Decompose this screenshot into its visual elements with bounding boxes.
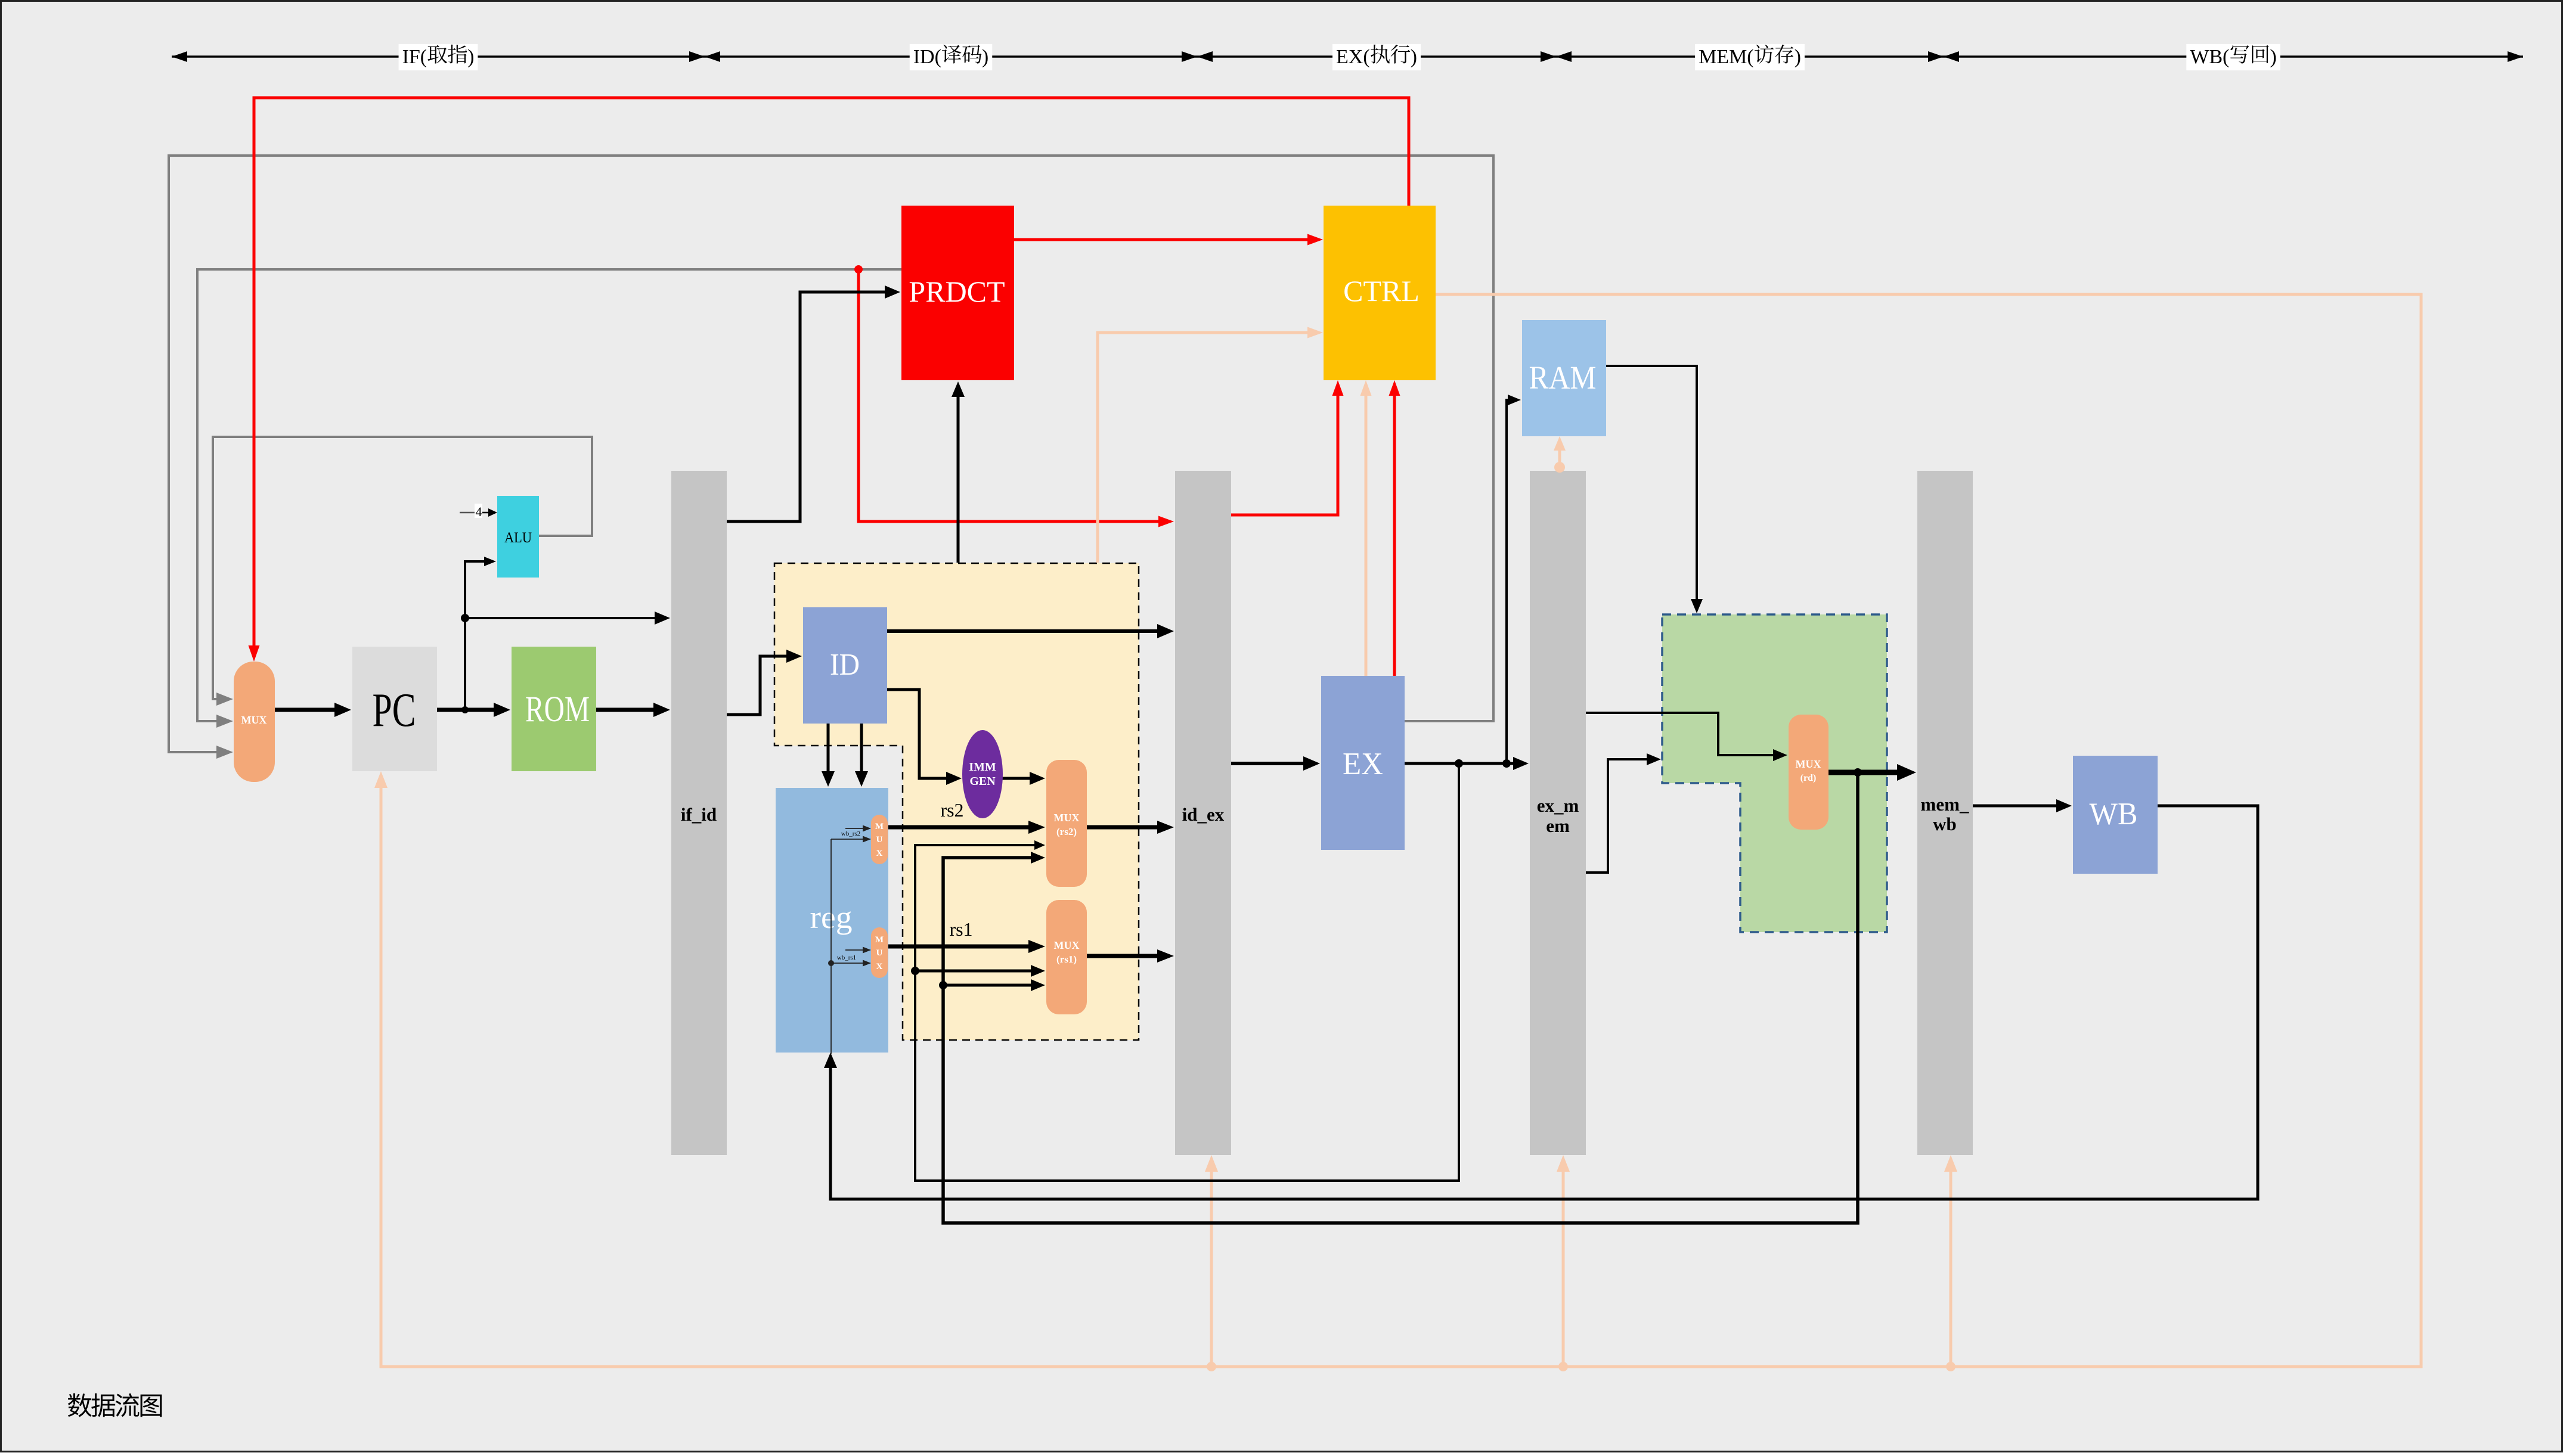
svg-text:EX(: EX( bbox=[1336, 46, 1370, 68]
svg-text:): ) bbox=[1795, 46, 1801, 68]
svg-text:wb_rs2: wb_rs2 bbox=[841, 830, 860, 837]
wire RAM to MEM region bbox=[1606, 366, 1703, 613]
wire PRDCT to CTRL (red) bbox=[1014, 234, 1323, 246]
writeback unit WB bbox=[2073, 756, 2158, 874]
wire ID to reg (rs1 index) bbox=[855, 724, 868, 787]
PC multiplexer MUX bbox=[234, 662, 275, 782]
wire reg rs1 to MUX rs1 bbox=[888, 940, 1045, 953]
pipeline register id_ex bbox=[1175, 471, 1231, 1155]
wire reg rs2 read into small mux bbox=[845, 825, 871, 832]
svg-text:mem_: mem_ bbox=[1921, 794, 1969, 815]
wire ALU+4 to PC-MUX (gray) bbox=[213, 437, 592, 706]
svg-text:U: U bbox=[876, 835, 883, 845]
program counter PC bbox=[352, 647, 437, 771]
svg-text:): ) bbox=[1411, 46, 1417, 68]
decoder ID bbox=[803, 607, 887, 724]
label IMM GEN bbox=[969, 760, 996, 788]
MEM-stage green dashed region bbox=[1662, 614, 1887, 932]
wire CTRL redirect to PC-MUX (red) bbox=[249, 98, 1409, 662]
stage label WB bbox=[2186, 44, 2280, 70]
svg-text:ROM: ROM bbox=[525, 690, 590, 729]
wire EX to PC-MUX (gray loop) bbox=[169, 156, 1493, 759]
label mem_wb bbox=[1921, 794, 1969, 834]
wire PC value into if_id bbox=[461, 611, 670, 625]
label ex_mem bbox=[1537, 795, 1579, 836]
wire MUX rd to mem_wb bbox=[1828, 764, 1916, 781]
branch predictor PRDCT bbox=[901, 206, 1014, 380]
stage label ID bbox=[910, 44, 993, 70]
wire ID to IMM GEN bbox=[887, 690, 962, 785]
wire EX forwarding to MUX rs2 bbox=[915, 763, 1459, 1181]
wire prediction into id_ex (red) bbox=[854, 265, 1174, 527]
wire id_ex to EX bbox=[1231, 756, 1320, 771]
svg-text:ex_m: ex_m bbox=[1537, 795, 1579, 816]
forwarding MUX rs1 bbox=[1046, 900, 1087, 1014]
svg-text:M: M bbox=[875, 822, 884, 831]
instruction memory ROM bbox=[512, 647, 596, 771]
wire id_ex prediction to CTRL (red) bbox=[1231, 380, 1344, 515]
svg-text:): ) bbox=[2270, 46, 2276, 68]
svg-text:EX: EX bbox=[1343, 747, 1383, 781]
wire if_id to ID bbox=[727, 650, 802, 715]
wire wb_rs1 into small mux bbox=[831, 960, 871, 967]
svg-text:wb: wb bbox=[1933, 814, 1957, 834]
svg-text:WB(: WB( bbox=[2190, 46, 2229, 68]
label M U X small rs2 bbox=[875, 822, 884, 858]
svg-text:ID(: ID( bbox=[913, 46, 941, 68]
wire peach branch to mem_wb bbox=[1944, 1155, 1957, 1371]
svg-text:WB: WB bbox=[2090, 797, 2138, 831]
data memory RAM bbox=[1522, 320, 1606, 436]
forwarding MUX rs2 bbox=[1046, 760, 1087, 887]
svg-text:MUX: MUX bbox=[1054, 812, 1080, 824]
wire EX to CTRL (red) bbox=[1389, 380, 1400, 676]
svg-text:X: X bbox=[876, 849, 883, 858]
svg-text:X: X bbox=[876, 962, 883, 971]
svg-text:RAM: RAM bbox=[1529, 359, 1597, 396]
svg-text:ALU: ALU bbox=[504, 530, 532, 546]
svg-text:em: em bbox=[1546, 815, 1570, 836]
wire wb_rs2 into small mux bbox=[831, 836, 871, 843]
wire ID region to CTRL (peach) bbox=[1098, 327, 1323, 563]
wire ID to id_ex (decode out) bbox=[887, 624, 1174, 638]
svg-text:id_ex: id_ex bbox=[1182, 804, 1225, 825]
wire ID region to PRDCT bbox=[952, 381, 965, 563]
title 数据流图 bbox=[68, 1393, 162, 1417]
svg-text:MUX: MUX bbox=[241, 714, 267, 726]
svg-text:GEN: GEN bbox=[969, 775, 996, 788]
wire MUX rs2 to id_ex bbox=[1087, 821, 1174, 834]
wire PC to ALU and if_id bbox=[465, 557, 496, 710]
adder ALU bbox=[497, 496, 539, 578]
svg-text:if_id: if_id bbox=[681, 804, 717, 825]
wire peach branch to id_ex bbox=[1205, 1155, 1218, 1371]
wire ex_mem to RAM (peach) bbox=[1554, 436, 1566, 473]
svg-text:): ) bbox=[982, 46, 988, 68]
svg-text:U: U bbox=[876, 948, 883, 958]
ID-stage yellow dashed region bbox=[774, 563, 1139, 1040]
writeback select MUX rd bbox=[1789, 715, 1828, 830]
wire PRDCT to PC-MUX (gray) bbox=[197, 269, 901, 728]
wire peach branch to ex_mem bbox=[1557, 1155, 1570, 1371]
svg-text:CTRL: CTRL bbox=[1343, 274, 1420, 308]
wire WB writeback to reg bbox=[824, 806, 2258, 1199]
register file reg bbox=[776, 788, 888, 1053]
reg read mux rs2 (small) bbox=[871, 815, 888, 864]
wire mem_wb to WB bbox=[1973, 799, 2072, 812]
stage label MEM bbox=[1695, 44, 1805, 70]
wire ROM to if_id (instruction) bbox=[596, 703, 670, 717]
pipeline stage ruler bbox=[172, 51, 2523, 62]
label MUX rs2 bbox=[1054, 812, 1080, 837]
label M U X small rs1 bbox=[875, 935, 884, 971]
pipeline register mem_wb bbox=[1917, 471, 1973, 1155]
wire ID to reg (rs2 index) bbox=[822, 724, 835, 787]
svg-text:): ) bbox=[467, 46, 474, 68]
pipeline register if_id bbox=[671, 471, 727, 1155]
wire reg internal writeback bus bbox=[828, 839, 834, 1054]
wire if_id to PRDCT bbox=[727, 285, 900, 521]
svg-text:MUX: MUX bbox=[1796, 758, 1821, 770]
wire MEM forwarding branch to MUX rs1 bbox=[939, 979, 1045, 991]
label MUX rs1 bbox=[1054, 939, 1080, 965]
svg-text:(rs1): (rs1) bbox=[1056, 954, 1077, 965]
svg-text:IMM: IMM bbox=[969, 760, 996, 774]
execute unit EX bbox=[1321, 676, 1405, 850]
wire IMM GEN to MUX rs2 bbox=[1002, 772, 1045, 785]
svg-text:MEM(: MEM( bbox=[1699, 46, 1754, 68]
stage label EX bbox=[1332, 44, 1421, 70]
svg-text:PC: PC bbox=[373, 683, 416, 737]
svg-text:rs2: rs2 bbox=[940, 799, 963, 821]
svg-text:PRDCT: PRDCT bbox=[909, 275, 1005, 308]
wire PC-MUX to PC bbox=[275, 703, 351, 717]
wire EX forwarding branch to MUX rs1 bbox=[911, 965, 1045, 977]
wire ex_mem to MEM region bbox=[1586, 753, 1661, 873]
svg-text:(rs2): (rs2) bbox=[1056, 826, 1077, 837]
wire EX result to RAM bbox=[1507, 395, 1521, 763]
control unit CTRL bbox=[1324, 206, 1436, 380]
wire PC to ROM bbox=[437, 703, 510, 717]
svg-text:ID: ID bbox=[830, 648, 860, 682]
constant 4 into ALU bbox=[460, 504, 497, 519]
wire ex_mem to MUX rd (alu result) bbox=[1586, 713, 1787, 761]
svg-text:M: M bbox=[875, 935, 884, 945]
wire MUX rs1 to id_ex bbox=[1087, 949, 1174, 963]
wire MEM forwarding to MUX rs2 bbox=[943, 772, 1858, 1223]
wire reg rs2 to MUX rs2 bbox=[888, 821, 1045, 834]
wire CTRL writeback enable loop (peach) bbox=[374, 294, 2421, 1367]
wire reg rs1 read into small mux bbox=[845, 947, 871, 954]
wire EX to CTRL (peach) bbox=[1360, 380, 1372, 676]
svg-text:MUX: MUX bbox=[1054, 939, 1080, 951]
svg-text:rs1: rs1 bbox=[949, 918, 972, 940]
immediate generator IMM GEN bbox=[962, 730, 1003, 818]
pipeline register ex_mem bbox=[1530, 471, 1586, 1155]
reg read mux rs1 (small) bbox=[871, 927, 888, 978]
label MUX rd bbox=[1796, 758, 1821, 783]
stage label IF bbox=[399, 44, 478, 70]
svg-text:4: 4 bbox=[476, 504, 482, 519]
svg-text:IF(: IF( bbox=[402, 46, 427, 68]
svg-text:(rd): (rd) bbox=[1800, 773, 1817, 783]
wire EX to ex_mem bbox=[1405, 757, 1529, 770]
svg-text:wb_rs1: wb_rs1 bbox=[837, 954, 856, 961]
